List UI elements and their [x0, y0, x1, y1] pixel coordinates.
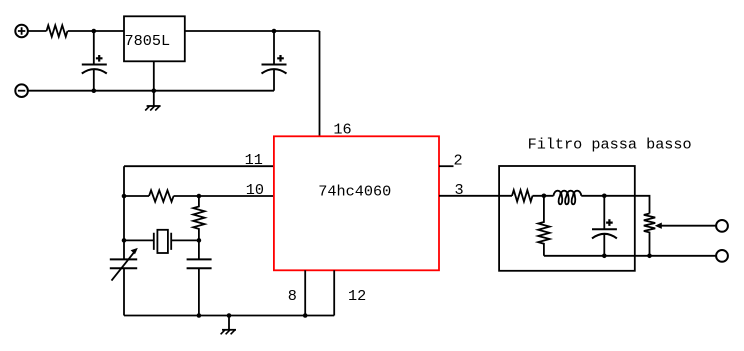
wire: oscillator left rail [123, 166, 125, 315]
junction: resistor node pin10 [197, 194, 202, 199]
svg-text:74hc4060: 74hc4060 [318, 183, 391, 201]
wire: pin 3 output [439, 195, 512, 197]
svg-text:12: 12 [348, 287, 366, 305]
svg-text:7805L: 7805L [125, 32, 171, 50]
wire: regulator output [185, 30, 320, 32]
svg-text:3: 3 [455, 181, 464, 199]
inductor: filter coil [554, 191, 582, 205]
potentiometer: output level [644, 214, 717, 256]
svg-text:10: 10 [246, 181, 264, 199]
label: Filtro passa basso [528, 136, 692, 154]
label: pin 3 [455, 181, 464, 199]
ground: oscillator section [221, 330, 236, 335]
terminal: output bottom [716, 250, 728, 262]
terminal: + supply input [15, 25, 28, 38]
junction: cap to bottom rail [197, 313, 202, 318]
junction: pin 8 to bottom rail [303, 313, 308, 318]
wire: resistor to inductor [533, 195, 554, 197]
svg-text:Filtro passa basso: Filtro passa basso [528, 136, 692, 154]
junction: crystal left node [122, 238, 127, 243]
junction: input cap node [92, 29, 97, 34]
junction: output cap node [272, 29, 277, 34]
junction: regulator ground node [152, 88, 157, 93]
variable capacitor (trimmer) [110, 248, 138, 281]
label: pin 16 [333, 121, 351, 139]
svg-text:8: 8 [288, 287, 297, 305]
junction: crystal right node [197, 238, 202, 243]
label: pin 10 [246, 181, 264, 199]
junction: shunt resistor node [542, 194, 547, 199]
wire: pin 11 net [124, 165, 274, 167]
wire: + terminal to resistor [28, 30, 47, 32]
regulator 7805L [124, 16, 185, 61]
wire: pin 12 [333, 270, 335, 315]
terminal: output top [716, 220, 728, 232]
junction: filter cap node [602, 194, 607, 199]
wire: inductor to pot [581, 196, 649, 214]
wire: +5V feed down to pin 16 [319, 31, 321, 136]
label: pin 8 [288, 287, 297, 305]
wire: ground rail [28, 90, 274, 92]
label: pin 12 [348, 287, 366, 305]
junction: cap to bottom rail [602, 254, 607, 259]
resistor: filter shunt [538, 196, 549, 256]
capacitor: input electrolytic (polarized) [82, 31, 107, 91]
wire: pin 10 net left [124, 195, 149, 197]
wire: filter bottom rail [544, 255, 717, 257]
terminal: - supply input [15, 84, 28, 97]
filter box [499, 166, 635, 271]
junction: input cap to ground rail [92, 88, 97, 93]
junction: pot to bottom rail [647, 254, 652, 259]
IC: 74hc4060 [274, 136, 439, 270]
junction: ground stub [227, 313, 232, 318]
wire: oscillator bottom rail [124, 315, 334, 317]
svg-text:16: 16 [333, 121, 351, 139]
ground: power section [145, 106, 160, 111]
wire: resistor to regulator input [68, 30, 124, 32]
capacitor: output electrolytic (polarized) [262, 31, 287, 91]
wire: pin 8 [304, 270, 306, 315]
label: pin 11 [245, 151, 263, 169]
wire: ground stub [228, 316, 230, 330]
resistor: oscillator vertical [193, 196, 204, 240]
crystal [124, 230, 199, 253]
label: pin 2 [454, 152, 463, 170]
wire: regulator ground pin [153, 61, 155, 106]
svg-text:2: 2 [454, 152, 463, 170]
capacitor: oscillator load [187, 240, 212, 315]
wire: pin 10 net right [174, 195, 274, 197]
resistor: oscillator feedback series [149, 190, 174, 201]
wire: pin 2 stub [439, 165, 454, 167]
capacitor: filter electrolytic (polarized) [592, 196, 617, 256]
junction: left rail pin10 [122, 194, 127, 199]
svg-text:11: 11 [245, 151, 263, 169]
resistor: input series resistor [47, 25, 68, 36]
resistor: filter series [512, 190, 533, 201]
